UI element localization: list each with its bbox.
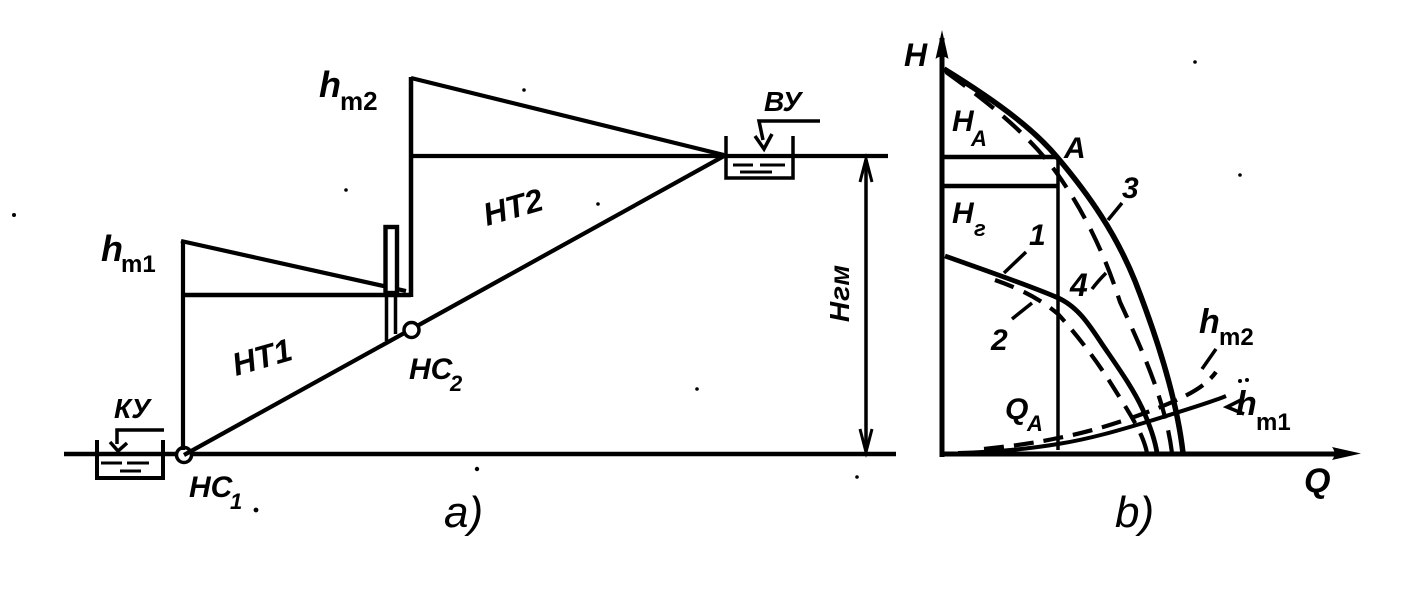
svg-text:НТ1: НТ1 [228, 331, 296, 382]
triangle hm2 hypotenuse [411, 78, 724, 155]
top level line [411, 154, 888, 158]
triangle hm1 hypotenuse [181, 241, 406, 291]
svg-text:2: 2 [449, 371, 463, 396]
label point A [1063, 132, 1086, 165]
ground line [64, 452, 896, 457]
pump node HC1 [177, 448, 192, 463]
svg-text:m1: m1 [121, 251, 156, 278]
dimension arrow Hgm [860, 159, 872, 452]
svg-text:h: h [101, 228, 123, 269]
svg-text:НС: НС [189, 471, 234, 504]
label KU [114, 393, 152, 424]
label HC2 [409, 353, 463, 396]
label 2 with tick [990, 303, 1032, 357]
svg-text:Н: Н [952, 197, 975, 230]
svg-text:1: 1 [1029, 219, 1046, 252]
svg-text:4: 4 [1069, 267, 1088, 303]
svg-text:m2: m2 [340, 86, 378, 116]
label 1 with tick [1004, 219, 1046, 273]
svg-text:Q: Q [1304, 462, 1330, 500]
svg-text:b): b) [1115, 488, 1154, 537]
svg-text:1: 1 [230, 489, 242, 514]
label Hg [952, 197, 986, 241]
svg-text:h: h [1199, 303, 1220, 341]
svg-text:m2: m2 [1219, 324, 1254, 351]
left vertical line [181, 241, 185, 450]
label Q axis [1304, 462, 1330, 500]
svg-text:h: h [319, 64, 341, 105]
svg-text:НС: НС [409, 353, 454, 386]
svg-text:h: h [1236, 385, 1257, 423]
label a) [444, 488, 483, 537]
label b) [1115, 488, 1154, 537]
label 3 with tick [1108, 172, 1139, 220]
svg-text:А: А [970, 126, 987, 151]
svg-text:ВУ: ВУ [764, 86, 803, 117]
rising curve hm2 dashed [984, 372, 1216, 449]
reservoir KU tank [97, 440, 163, 478]
label H axis [904, 37, 928, 73]
curve 4 dashed [946, 72, 1172, 453]
label QA [1005, 393, 1043, 436]
KU arrow [110, 430, 164, 451]
curve 3 solid [944, 69, 1183, 453]
label HT2 [479, 181, 547, 232]
label VU [764, 86, 803, 117]
label hm2 curve [1199, 303, 1254, 369]
pump node HC2 [404, 323, 419, 338]
svg-text:m1: m1 [1256, 409, 1291, 436]
svg-text:а): а) [444, 488, 483, 537]
reservoir VU tank [726, 136, 793, 178]
svg-text:НТ2: НТ2 [479, 181, 547, 232]
svg-text:3: 3 [1122, 172, 1139, 205]
curve 1 solid [945, 256, 1157, 453]
H axis [936, 30, 949, 457]
Q axis [940, 447, 1361, 460]
rising curve hm1 solid [958, 396, 1226, 453]
svg-text:г: г [974, 216, 986, 241]
pipe double line [387, 297, 396, 341]
label HA [952, 105, 987, 151]
svg-text:Н: Н [904, 37, 928, 73]
label HT1 [228, 331, 296, 382]
label Hgm rotated [824, 264, 855, 322]
scan specks [12, 60, 1242, 512]
svg-text:2: 2 [990, 324, 1008, 357]
curve 2 dashed [995, 280, 1147, 453]
label hm1 [101, 228, 156, 278]
triangle hm1 base [181, 293, 411, 298]
label hm2 [319, 64, 378, 116]
label 4 with tick [1069, 267, 1106, 303]
svg-text:КУ: КУ [114, 393, 152, 424]
tall vertical line hm2 [409, 77, 414, 297]
svg-text:А: А [1026, 411, 1043, 436]
svg-text:Q: Q [1005, 393, 1028, 426]
horizontal line HA level [942, 155, 1057, 160]
riser rectangle [386, 227, 398, 293]
vertical line QA [1056, 157, 1060, 450]
horizontal line Hg level [942, 184, 1058, 189]
svg-text:А: А [1063, 132, 1086, 165]
label HC1 [189, 471, 242, 514]
label hm1 curve [1227, 378, 1291, 436]
VU arrow [755, 121, 820, 149]
svg-text:Нгм: Нгм [824, 264, 855, 322]
diagonal HT line [184, 156, 724, 455]
